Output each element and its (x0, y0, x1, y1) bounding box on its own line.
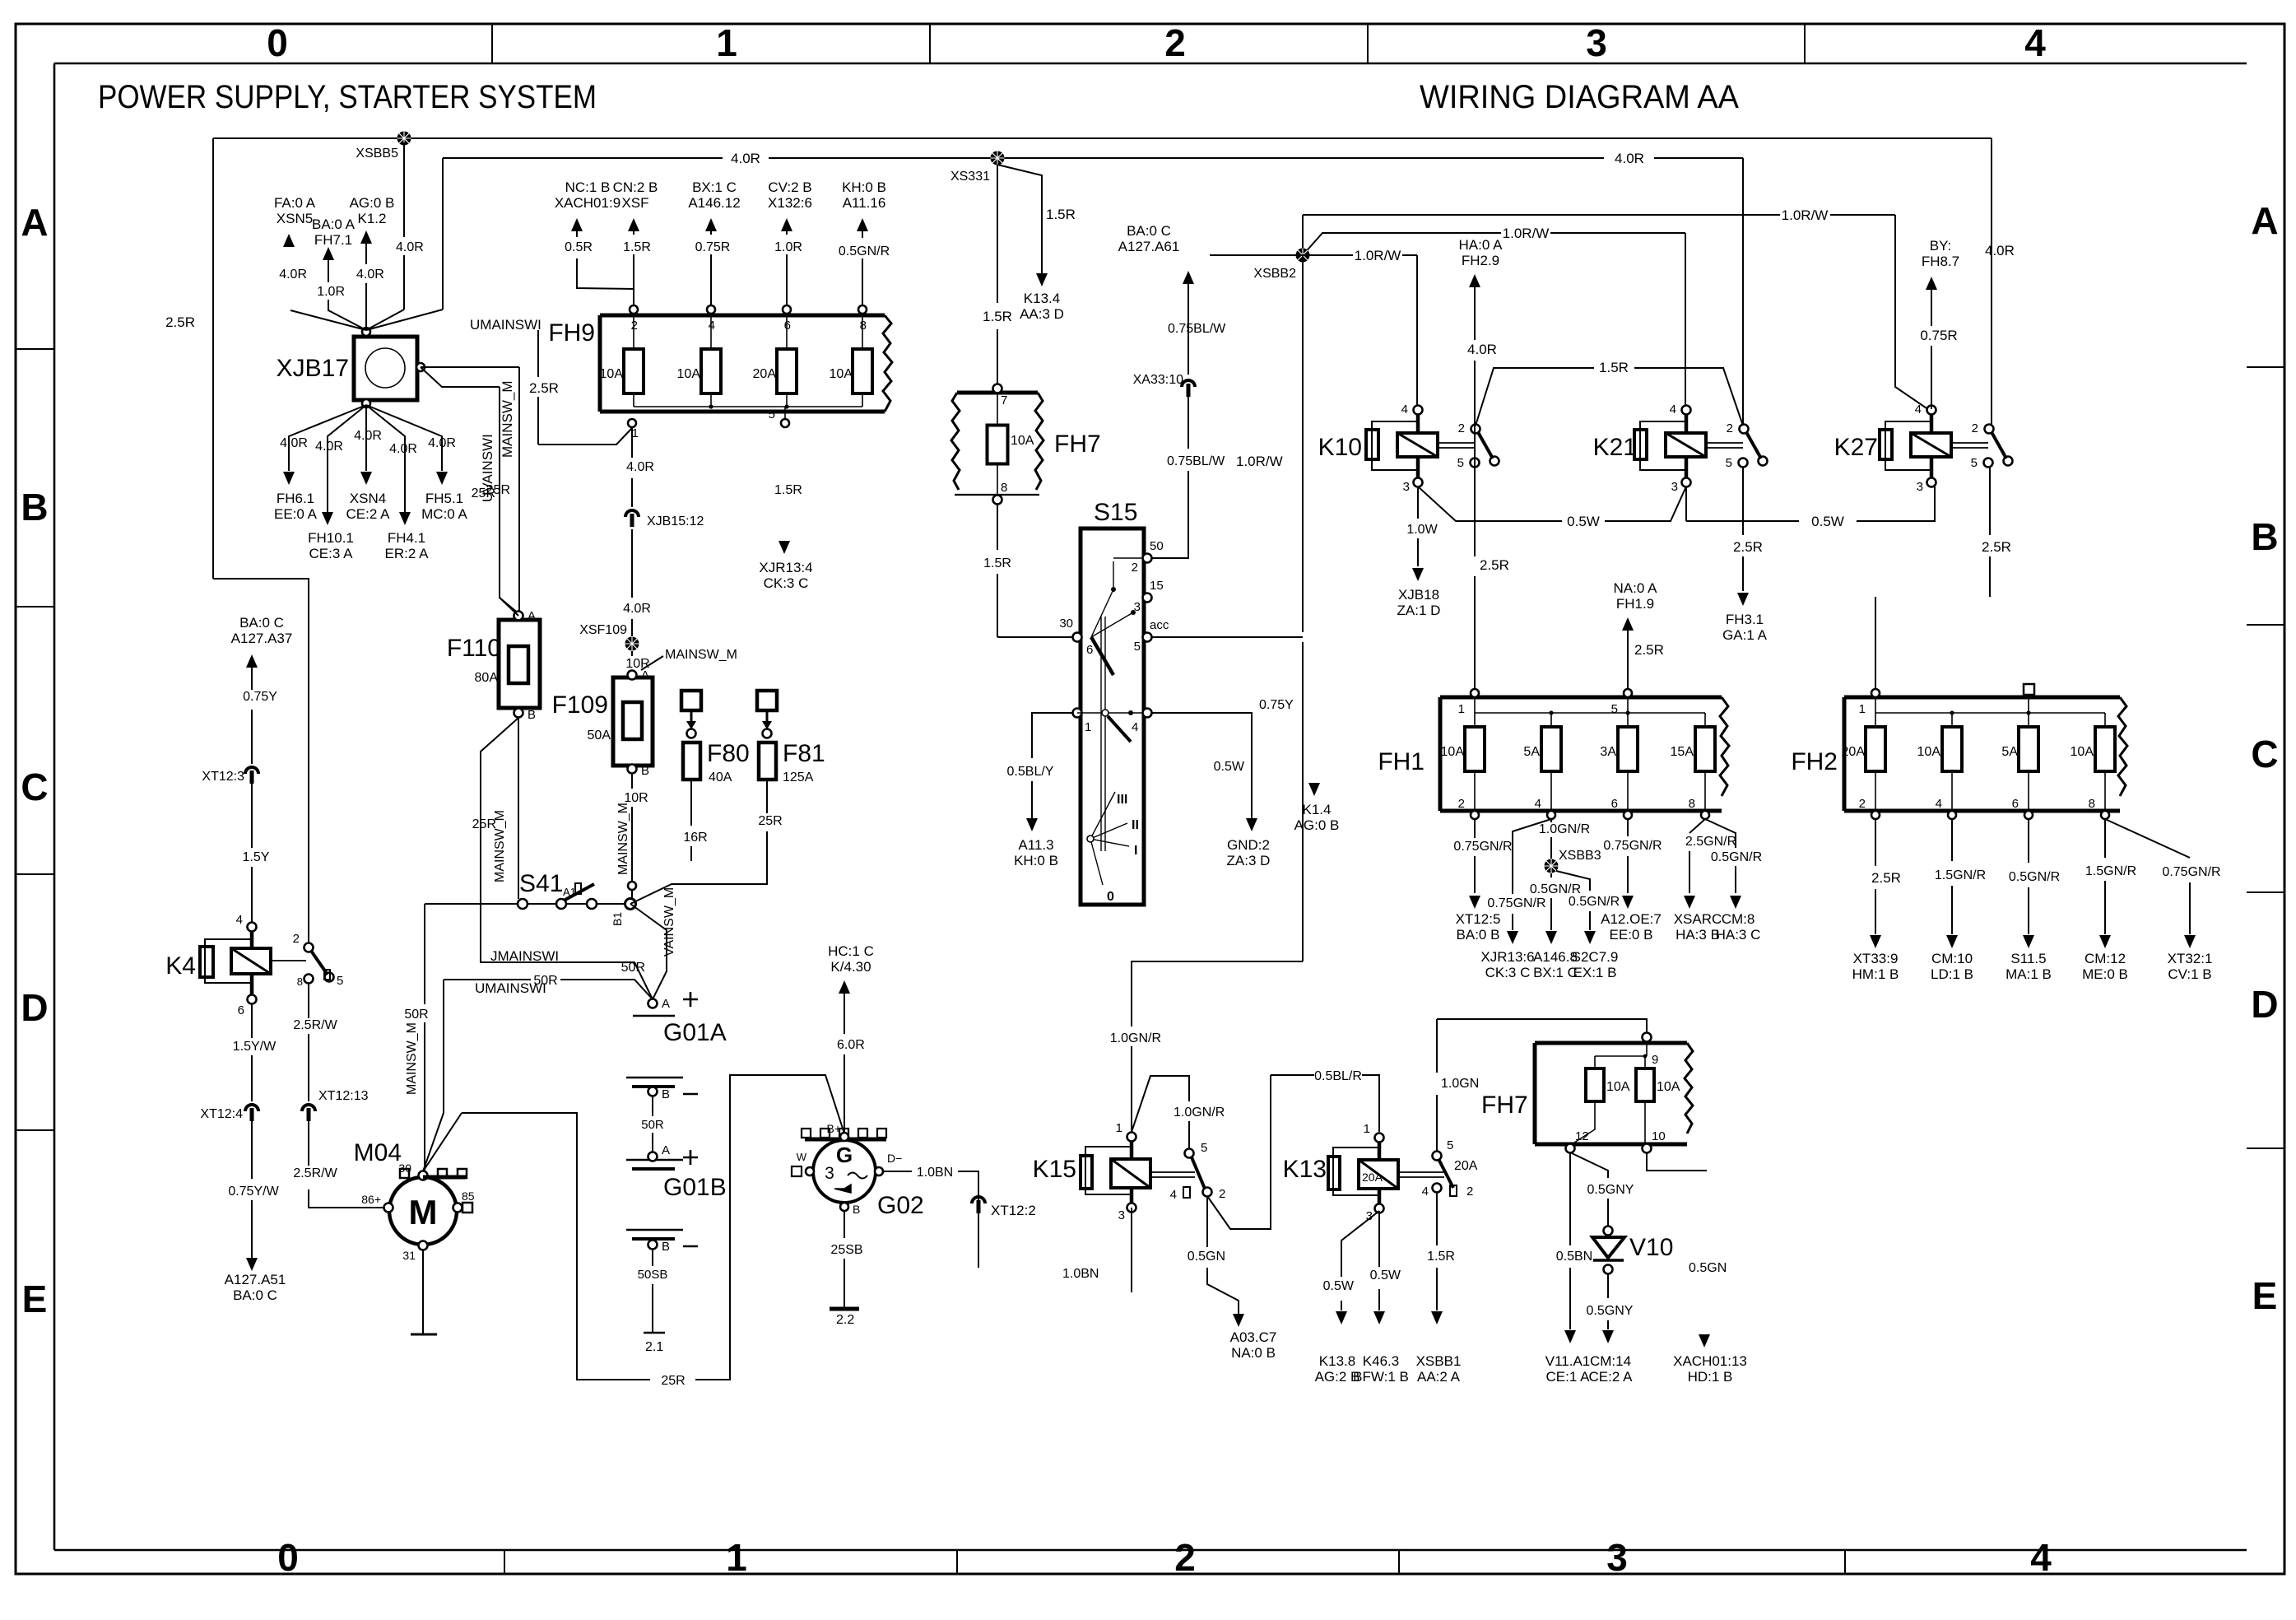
svg-text:2: 2 (631, 319, 638, 333)
svg-text:A03.C7: A03.C7 (1230, 1329, 1277, 1345)
junction XSF109 (625, 637, 639, 651)
svg-text:6: 6 (2012, 797, 2019, 811)
svg-text:XJB18: XJB18 (1398, 587, 1439, 603)
svg-text:FH10.1: FH10.1 (308, 530, 354, 546)
svg-text:4: 4 (1422, 1185, 1429, 1199)
wire 1.0R/W to K10 (1210, 255, 1417, 410)
svg-text:3: 3 (1586, 21, 1607, 64)
svg-text:XS331: XS331 (950, 170, 990, 184)
fuse box FH7 bottom (1481, 1033, 1693, 1153)
svg-text:4: 4 (2030, 1536, 2052, 1579)
wire G02 B down 25SB (844, 1211, 845, 1307)
wire M04 ground (422, 1250, 424, 1334)
svg-text:MC:0 A: MC:0 A (421, 506, 467, 522)
arrow AG:0 B K1.2 (360, 230, 372, 244)
svg-text:CN:2 B: CN:2 B (613, 179, 658, 195)
svg-text:0.5BL/R: 0.5BL/R (1314, 1069, 1362, 1083)
svg-text:0.5W: 0.5W (1323, 1279, 1355, 1293)
svg-text:FH8.7: FH8.7 (1922, 254, 1959, 269)
svg-text:4.0R: 4.0R (396, 240, 424, 254)
svg-text:20A: 20A (1842, 745, 1866, 759)
svg-text:2.5R: 2.5R (1634, 642, 1664, 658)
wire FH2 pin6 down S11.5 (2028, 819, 2029, 934)
svg-text:50: 50 (1150, 539, 1164, 553)
svg-text:16R: 16R (683, 831, 707, 845)
svg-text:15: 15 (1150, 579, 1164, 593)
svg-text:4.0R: 4.0R (626, 460, 654, 474)
svg-text:UMAINSWI: UMAINSWI (470, 317, 541, 333)
svg-text:GND:2: GND:2 (1227, 837, 1270, 853)
svg-text:XT33:9: XT33:9 (1853, 951, 1899, 966)
wire FH1 pin4 branch XJR13:6 (1513, 819, 1551, 930)
relay K10 (1318, 403, 1499, 494)
svg-text:FH7: FH7 (1054, 431, 1101, 458)
wire MAINSW_M F110 to S41 (518, 718, 519, 899)
svg-text:4: 4 (1936, 797, 1942, 811)
wire 1.0GN FH7 to K13 pin5 (1437, 1019, 1647, 1151)
svg-text:D: D (2251, 983, 2278, 1026)
svg-text:CE:1 A: CE:1 A (1546, 1369, 1591, 1385)
svg-text:POWER SUPPLY, STARTER SYSTEM: POWER SUPPLY, STARTER SYSTEM (98, 79, 597, 115)
svg-text:WIRING DIAGRAM AA: WIRING DIAGRAM AA (1420, 79, 1739, 115)
svg-text:FH1.9: FH1.9 (1616, 596, 1654, 612)
connector hook XT12:2 (972, 1197, 985, 1203)
svg-text:2.5GN/R: 2.5GN/R (1685, 835, 1736, 849)
svg-text:A: A (2251, 199, 2278, 242)
svg-text:2: 2 (1132, 561, 1138, 575)
svg-text:50SB: 50SB (638, 1268, 668, 1282)
battery G01B (626, 1143, 727, 1254)
wire 0.5W K21 to K27 (1686, 486, 1935, 521)
svg-text:5A: 5A (2001, 745, 2018, 759)
svg-text:XSBB5: XSBB5 (356, 147, 398, 161)
wire FH1 pin2 down XT12:5 (1474, 819, 1476, 893)
svg-text:4.0R: 4.0R (354, 429, 382, 443)
svg-text:4.0R: 4.0R (356, 268, 384, 282)
svg-text:25R: 25R (758, 814, 782, 828)
svg-text:XT12:13: XT12:13 (318, 1089, 369, 1103)
svg-text:A12.OE:7: A12.OE:7 (1601, 911, 1662, 927)
fuse box FH2 (1791, 684, 2127, 819)
svg-text:40A: 40A (709, 770, 732, 784)
wire HA:0 A FH2.9 down to FH1 (1469, 274, 1480, 287)
svg-text:2.5R/W: 2.5R/W (293, 1018, 337, 1032)
wire UMAINSWI to G01A (423, 980, 653, 1171)
svg-text:HA:3 C: HA:3 C (1716, 927, 1761, 943)
wire K15 pin2 up 0.5BL/R (1207, 1075, 1379, 1229)
wire bus 4.0R top (213, 138, 1992, 579)
svg-text:XSBB3: XSBB3 (1559, 849, 1601, 863)
svg-text:0.5BL/Y: 0.5BL/Y (1007, 765, 1054, 779)
svg-text:CM:10: CM:10 (1931, 951, 1973, 966)
svg-text:25R: 25R (661, 1374, 685, 1388)
svg-text:4.0R: 4.0R (731, 151, 760, 166)
wire F81 down 25R to B1 (766, 780, 768, 884)
svg-text:G01B: G01B (663, 1174, 727, 1201)
svg-text:XACH01:13: XACH01:13 (1673, 1353, 1747, 1369)
svg-text:8: 8 (297, 975, 303, 988)
svg-text:B: B (662, 1087, 670, 1101)
svg-text:20A: 20A (753, 367, 777, 381)
wire K15 pin3 down 1.0BN (1131, 1208, 1132, 1292)
connector hook XA33:10 (1182, 380, 1195, 387)
svg-text:B: B (662, 1240, 670, 1254)
svg-text:XSN4: XSN4 (350, 491, 386, 506)
svg-text:2: 2 (293, 932, 300, 946)
svg-text:BX:1 C: BX:1 C (1533, 965, 1578, 980)
svg-text:F109: F109 (552, 691, 608, 719)
svg-text:3A: 3A (1600, 745, 1616, 759)
wire FH1 pin5 up NA:0 A (1627, 627, 1629, 689)
svg-text:K4: K4 (165, 952, 196, 980)
svg-text:1.5R: 1.5R (1046, 207, 1076, 222)
svg-text:10: 10 (1652, 1129, 1666, 1143)
arrow GND:2 ZA:3 D (1246, 818, 1257, 831)
svg-text:B: B (528, 708, 536, 722)
svg-text:2: 2 (1859, 797, 1866, 811)
svg-text:0.75R: 0.75R (695, 240, 731, 254)
svg-text:0.5W: 0.5W (1811, 514, 1844, 529)
wire 1.0R/W bus lower (1303, 233, 1685, 412)
svg-text:3: 3 (825, 1164, 834, 1183)
svg-text:4: 4 (1915, 403, 1922, 417)
svg-text:0: 0 (1107, 890, 1114, 904)
junction XSBB5 (397, 132, 411, 146)
svg-text:1.5Y: 1.5Y (243, 850, 270, 864)
svg-text:K46.3: K46.3 (1363, 1353, 1399, 1369)
svg-text:1: 1 (1116, 1121, 1122, 1135)
svg-text:ME:0 B: ME:0 B (2082, 966, 2128, 982)
svg-text:I: I (1134, 844, 1137, 858)
relay K13 contact (1397, 1172, 1444, 1177)
svg-text:0.75BL/W: 0.75BL/W (1168, 322, 1226, 336)
svg-text:1: 1 (1364, 1122, 1370, 1136)
wire FH9 pin8 up (862, 224, 863, 305)
svg-text:HA:0 A: HA:0 A (1459, 237, 1504, 253)
svg-text:FH3.1: FH3.1 (1726, 612, 1764, 627)
svg-text:K15: K15 (1033, 1156, 1076, 1183)
svg-text:BA:0 B: BA:0 B (1457, 927, 1500, 943)
svg-text:9: 9 (1652, 1053, 1658, 1067)
arrow BX:1 C A146.12 (705, 218, 717, 231)
chassis point 2.2 (830, 1307, 859, 1311)
svg-text:6: 6 (1611, 797, 1618, 811)
svg-text:S41: S41 (519, 870, 563, 897)
svg-text:8: 8 (860, 319, 867, 333)
svg-text:10A: 10A (830, 367, 853, 381)
svg-text:2.5R: 2.5R (1733, 539, 1763, 555)
svg-text:FH2: FH2 (1791, 748, 1838, 775)
svg-text:10A: 10A (1657, 1080, 1680, 1094)
svg-text:0.75Y/W: 0.75Y/W (228, 1185, 279, 1199)
svg-text:FH6.1: FH6.1 (277, 491, 314, 506)
svg-text:1.0GN/R: 1.0GN/R (1539, 822, 1590, 836)
relay K27 (1834, 403, 2013, 494)
svg-text:ZA:3 D: ZA:3 D (1227, 853, 1271, 868)
svg-text:XSF: XSF (621, 195, 648, 211)
svg-text:3: 3 (1671, 480, 1678, 494)
svg-text:4.0R: 4.0R (389, 442, 417, 456)
svg-text:2: 2 (1727, 421, 1733, 435)
svg-text:1.5R: 1.5R (1427, 1250, 1455, 1264)
svg-text:0.5GNY: 0.5GNY (1587, 1304, 1634, 1318)
svg-text:1.5GN/R: 1.5GN/R (1935, 868, 1986, 882)
svg-text:ZA:1 D: ZA:1 D (1397, 603, 1441, 618)
svg-text:II: II (1132, 818, 1139, 832)
svg-text:HC:1 C: HC:1 C (828, 943, 874, 959)
svg-text:AA:3 D: AA:3 D (1020, 306, 1064, 322)
svg-text:MAINSW_M: MAINSW_M (500, 381, 515, 459)
svg-text:4.0R: 4.0R (1615, 151, 1644, 166)
svg-text:10A: 10A (1606, 1080, 1630, 1094)
svg-text:V11.A1: V11.A1 (1545, 1353, 1591, 1369)
svg-text:G: G (836, 1143, 853, 1167)
svg-text:XJR13:6: XJR13:6 (1480, 949, 1534, 965)
svg-text:10A: 10A (600, 367, 624, 381)
wire G01A to G01B 50R (652, 1096, 653, 1152)
svg-text:K1.2: K1.2 (358, 211, 387, 226)
wire FH2 pin1 stub (1875, 597, 1876, 689)
svg-text:2: 2 (1972, 421, 1978, 435)
svg-text:4: 4 (709, 319, 715, 333)
svg-text:XACH01:9: XACH01:9 (555, 195, 620, 211)
wire K15 pin2 down 0.5GN (1207, 1196, 1239, 1314)
svg-text:0: 0 (267, 21, 288, 64)
svg-text:B: B (641, 764, 649, 778)
wire XJB17 top fan (290, 142, 443, 330)
svg-text:MAINSW_M: MAINSW_M (616, 803, 630, 875)
arrow A11.3 KH:0 B (1026, 818, 1038, 831)
svg-text:K13: K13 (1283, 1156, 1327, 1183)
svg-text:1.5R: 1.5R (983, 309, 1012, 324)
svg-text:80A: 80A (475, 671, 499, 685)
svg-text:2: 2 (1466, 1185, 1473, 1199)
fuse F81 (757, 691, 825, 784)
svg-text:A: A (528, 609, 536, 623)
svg-text:2: 2 (1458, 421, 1465, 435)
wire FH1 pin6 down A12.OE:7 (1627, 819, 1629, 893)
svg-text:10A: 10A (677, 367, 701, 381)
svg-text:HM:1 B: HM:1 B (1852, 966, 1899, 982)
generator G02 (792, 1122, 924, 1219)
svg-text:10A: 10A (1917, 745, 1941, 759)
svg-text:A: A (662, 997, 670, 1011)
svg-text:1.0R/W: 1.0R/W (1503, 226, 1550, 241)
wire G02 B+ up to K/4.30 (844, 990, 845, 1133)
svg-text:0.5BN: 0.5BN (1556, 1250, 1592, 1264)
wire 1.5R from XS331 to K13.4 (997, 165, 1042, 275)
svg-text:B: B (853, 1203, 860, 1216)
wire FH2 pin8 down CM:12 (2104, 819, 2106, 934)
wire 1.0R/W down from XSBB2 (1302, 255, 1304, 961)
svg-text:4.0R: 4.0R (428, 436, 456, 450)
wire S15 pin50 up 0.75BL/W (1151, 277, 1188, 558)
ignition switch S15 (1059, 499, 1169, 905)
svg-text:20A: 20A (1454, 1159, 1478, 1173)
svg-text:F81: F81 (783, 740, 825, 767)
svg-text:4.0R: 4.0R (623, 602, 651, 616)
fuse F109 (552, 668, 653, 778)
svg-text:XT12:3: XT12:3 (202, 770, 244, 784)
wire 0.5W K10 to K21 (1418, 486, 1686, 521)
svg-text:1.5GN/R: 1.5GN/R (2085, 864, 2136, 878)
wire XJB17 right to switches (421, 367, 519, 614)
arrow BA:0 A FH7.1 (323, 247, 334, 260)
wire FH9 pin4 up (710, 224, 712, 305)
wire FH9 pin6 up (786, 224, 788, 305)
svg-text:0.5GN/R: 0.5GN/R (2009, 870, 2060, 884)
svg-text:CM:8: CM:8 (1722, 911, 1755, 927)
svg-text:0.75Y: 0.75Y (243, 690, 277, 704)
svg-text:G02: G02 (877, 1192, 924, 1219)
svg-text:0.5GNY: 0.5GNY (1587, 1183, 1634, 1197)
svg-text:FH4.1: FH4.1 (388, 530, 425, 546)
svg-text:AA:2 A: AA:2 A (1417, 1369, 1461, 1385)
junction XS331 (991, 151, 1005, 165)
wire G01B to chassis 50SB (652, 1250, 653, 1333)
svg-text:1.0GN/R: 1.0GN/R (1174, 1106, 1225, 1120)
svg-text:5: 5 (1134, 640, 1141, 654)
arrow XSN4 CE:2 A (360, 472, 372, 485)
svg-text:B1: B1 (611, 912, 624, 926)
svg-text:25SB: 25SB (830, 1243, 862, 1257)
svg-text:A146.12: A146.12 (688, 195, 740, 211)
svg-text:2.5R: 2.5R (1982, 539, 2011, 555)
junction XSBB3 (1545, 859, 1559, 873)
svg-text:LD:1 B: LD:1 B (1931, 966, 1973, 982)
svg-text:A127.A51: A127.A51 (225, 1272, 286, 1287)
svg-text:EX:1 B: EX:1 B (1573, 965, 1617, 980)
svg-text:8: 8 (1001, 481, 1007, 495)
wire V10 down 0.5GNY (1607, 1274, 1609, 1329)
svg-text:0.5GN: 0.5GN (1188, 1250, 1225, 1264)
wire FH2 pin2 down XT33:9 (1875, 819, 1876, 934)
svg-text:50R: 50R (641, 1118, 664, 1132)
svg-text:V10: V10 (1629, 1234, 1673, 1261)
connector hook XT12:4 (245, 1105, 258, 1111)
arrow A146.8 BX:1 C (1545, 931, 1557, 944)
svg-text:FH7: FH7 (1481, 1092, 1528, 1119)
svg-text:0.75Y: 0.75Y (1259, 698, 1294, 712)
fuse box FH7 top (951, 384, 1101, 505)
svg-text:1.0R: 1.0R (317, 285, 345, 299)
svg-text:2: 2 (1458, 797, 1465, 811)
svg-text:BY:: BY: (1930, 238, 1951, 254)
svg-text:CE:2 A: CE:2 A (346, 506, 391, 522)
svg-text:2.5R: 2.5R (165, 314, 195, 330)
wire F109 B down to B1 (631, 774, 633, 900)
svg-text:2.5R: 2.5R (1871, 870, 1901, 886)
wire S15 pin1 left 0.5BL/Y (1032, 713, 1073, 819)
svg-text:1.5R: 1.5R (774, 483, 802, 497)
svg-text:5: 5 (1611, 702, 1618, 716)
junction XSBB2 (1296, 249, 1310, 263)
wire K13 pin4 down 1.5R (1436, 1193, 1438, 1310)
switch S41 (425, 870, 630, 909)
wire FH7 pin10 0.5GN (1647, 1152, 1707, 1171)
wire K21 pin5 down FH3.1 (1742, 467, 1744, 591)
wire XSBB3 branch S2C7.9 (1556, 871, 1590, 930)
svg-text:XSN5: XSN5 (277, 211, 313, 226)
svg-text:XJR13:4: XJR13:4 (759, 560, 812, 575)
wire K4 pin8 down to M04 (309, 984, 383, 1208)
wire S15 pin30 left to FH7 (997, 636, 1073, 638)
svg-text:NA:0 B: NA:0 B (1231, 1345, 1276, 1361)
svg-text:4.0R: 4.0R (279, 268, 307, 282)
svg-text:A127.A61: A127.A61 (1118, 239, 1180, 254)
svg-text:3: 3 (1917, 480, 1923, 494)
wire K4 pin2 feed (213, 579, 309, 943)
svg-text:A127.A37: A127.A37 (231, 631, 293, 646)
wire XJB17 bottom fan (289, 405, 442, 512)
svg-text:A: A (662, 1143, 670, 1157)
svg-text:0.5GN/R: 0.5GN/R (1569, 895, 1620, 909)
svg-text:1: 1 (1085, 720, 1091, 734)
svg-text:A11.3: A11.3 (1018, 837, 1053, 853)
svg-text:1.0BN: 1.0BN (917, 1166, 953, 1180)
svg-text:F110: F110 (447, 635, 501, 662)
svg-text:XSBB2: XSBB2 (1253, 267, 1296, 281)
svg-text:FA:0 A: FA:0 A (274, 195, 316, 211)
svg-text:8: 8 (2089, 797, 2095, 811)
svg-text:6: 6 (1086, 643, 1093, 657)
svg-text:30: 30 (1059, 617, 1073, 631)
wire 1.0GN/R to K15 (1132, 961, 1303, 1149)
svg-text:1.5R: 1.5R (983, 556, 1011, 570)
svg-text:0.75GN/R: 0.75GN/R (1487, 896, 1545, 910)
svg-text:5: 5 (769, 407, 775, 421)
svg-text:2.2: 2.2 (836, 1313, 854, 1327)
svg-text:1.0GN: 1.0GN (1441, 1077, 1479, 1091)
svg-text:50R: 50R (621, 961, 645, 975)
wire F110 B to JMAINSWI (481, 718, 653, 999)
svg-text:FH1: FH1 (1378, 748, 1425, 775)
svg-text:A: A (641, 668, 649, 682)
svg-text:4.0R: 4.0R (1467, 342, 1497, 357)
relay K15 (1033, 1121, 1150, 1222)
svg-text:XSF109: XSF109 (579, 623, 627, 637)
svg-text:XSARC: XSARC (1674, 911, 1722, 927)
svg-text:0.75GN/R: 0.75GN/R (2162, 865, 2220, 879)
svg-text:5: 5 (1201, 1141, 1207, 1155)
fuse box FH9 (548, 305, 892, 440)
svg-text:XJB17: XJB17 (277, 355, 349, 382)
svg-text:MAINSW_M: MAINSW_M (405, 1022, 419, 1095)
svg-text:acc: acc (1150, 618, 1169, 632)
svg-text:1.0R/W: 1.0R/W (1782, 207, 1829, 223)
arrow CV:2 B X132:6 (781, 218, 792, 231)
wire FH7 pin8 down to S15 (997, 505, 998, 637)
svg-text:X132:6: X132:6 (768, 195, 812, 211)
svg-text:0.75GN/R: 0.75GN/R (1603, 839, 1662, 853)
svg-text:S15: S15 (1094, 499, 1137, 526)
svg-text:4: 4 (1535, 797, 1541, 811)
svg-text:6: 6 (784, 319, 791, 333)
svg-text:FH9: FH9 (548, 319, 595, 347)
svg-text:1.0GN/R: 1.0GN/R (1110, 1031, 1161, 1045)
svg-text:VAINSW_M: VAINSW_M (662, 887, 676, 957)
svg-text:E: E (2252, 1274, 2278, 1317)
svg-text:10A: 10A (1011, 434, 1034, 448)
svg-text:C: C (21, 766, 48, 808)
wire S15 acc right (1151, 636, 1303, 638)
svg-text:D−: D− (887, 1152, 902, 1165)
svg-text:BFW:1 B: BFW:1 B (1353, 1369, 1409, 1385)
svg-text:1.0R: 1.0R (774, 240, 802, 254)
svg-text:5: 5 (1457, 456, 1464, 470)
svg-text:0.75R: 0.75R (1920, 328, 1957, 343)
wire FH2 pin8 branch XT32:1 (2105, 819, 2190, 934)
